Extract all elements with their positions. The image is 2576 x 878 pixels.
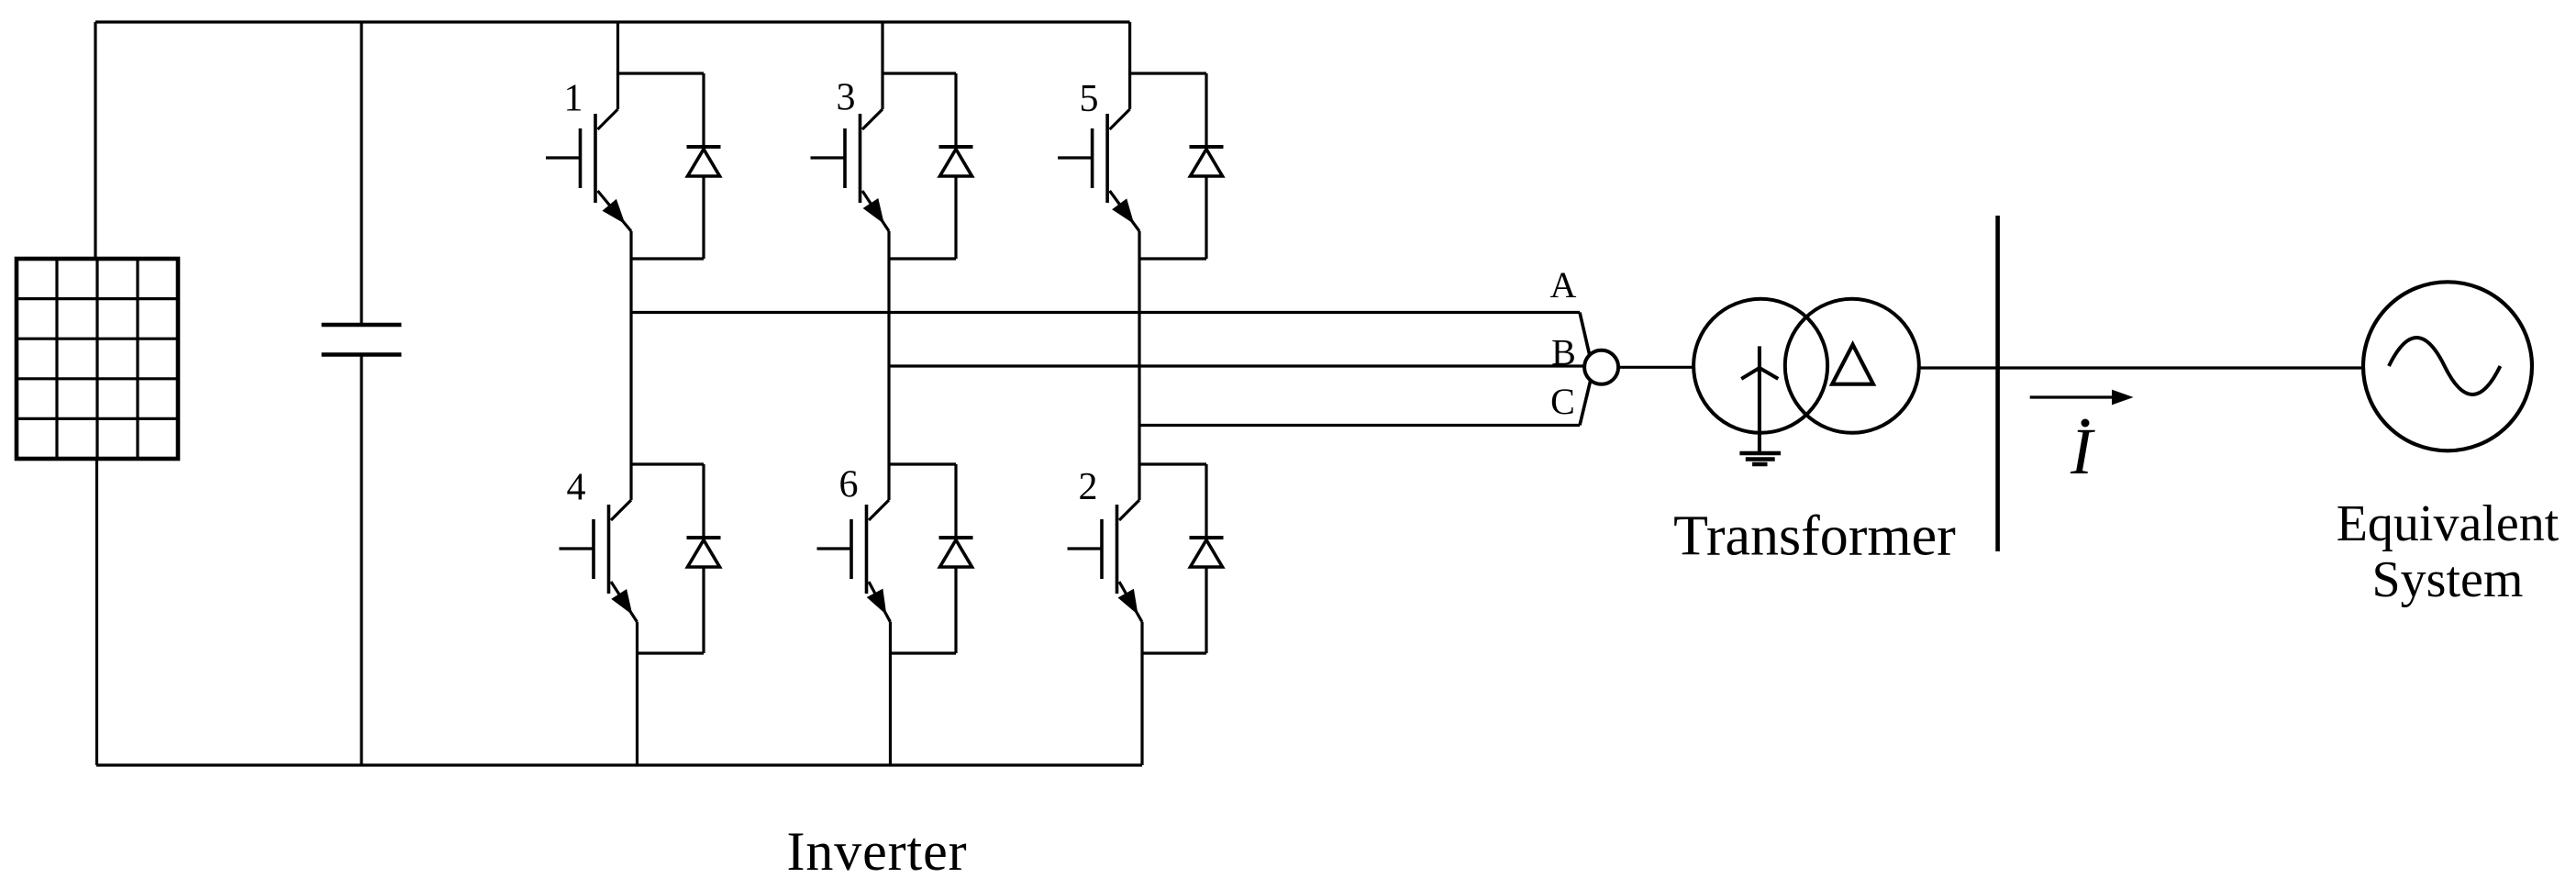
svg-text:1: 1 — [564, 78, 583, 120]
svg-text:4: 4 — [567, 467, 586, 509]
svg-text:B: B — [1551, 332, 1576, 373]
svg-text:6: 6 — [839, 464, 859, 506]
svg-text:A: A — [1550, 264, 1577, 306]
svg-text:2: 2 — [1079, 466, 1098, 508]
svg-text:C: C — [1550, 381, 1575, 422]
svg-text:5: 5 — [1080, 78, 1099, 120]
svg-text:3: 3 — [837, 77, 856, 119]
svg-text:Transformer: Transformer — [1673, 506, 1956, 568]
svg-text:Inverter: Inverter — [786, 821, 967, 878]
svg-text:Equivalent: Equivalent — [2337, 495, 2559, 552]
svg-text:System: System — [2372, 551, 2524, 608]
